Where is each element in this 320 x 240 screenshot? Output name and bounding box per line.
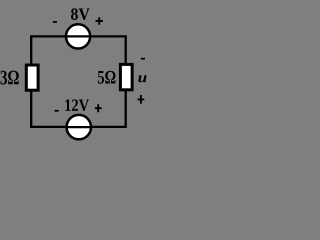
wire right	[125, 36, 127, 127]
resistor R2 body (5 ohm)	[120, 64, 132, 89]
voltage source U1 8V (top circle)	[66, 24, 90, 48]
polarity minus of u	[141, 58, 145, 60]
wire chord through U2	[65, 126, 92, 128]
voltage source U2 12V (bottom circle)	[67, 115, 91, 139]
polarity minus of 8V	[53, 21, 57, 23]
wire chord through U1	[65, 35, 92, 37]
polarity plus of u	[138, 95, 145, 104]
voltage label u	[138, 75, 146, 82]
polarity plus of 12V	[95, 104, 102, 112]
wire bottom	[30, 126, 127, 128]
label 12V	[65, 99, 89, 111]
wire left	[30, 36, 32, 127]
polarity minus of 12V	[55, 110, 59, 112]
resistor R1 body (3 ohm)	[26, 65, 38, 90]
label 3 ohm	[1, 71, 19, 85]
label 5 ohm	[98, 71, 116, 84]
wire top	[30, 35, 127, 37]
label 8V	[71, 8, 90, 20]
polarity plus of 8V	[96, 17, 103, 25]
